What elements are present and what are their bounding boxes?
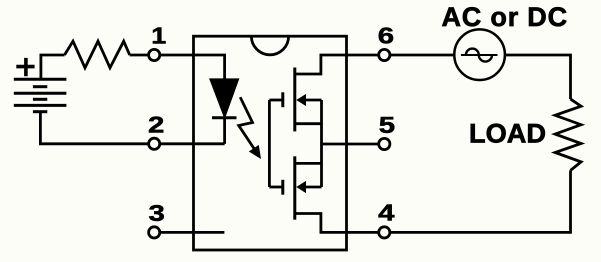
svg-text:2: 2 bbox=[148, 111, 164, 138]
wire LED cathode down bbox=[223, 118, 226, 144]
wire battery negative to pin 2 bbox=[40, 112, 148, 144]
wire load to pin 4 bbox=[390, 170, 571, 232]
terminal circle pin 2 bbox=[149, 138, 160, 149]
Q1 gate plate bbox=[281, 92, 284, 107]
wire battery positive to resistor bbox=[41, 55, 65, 79]
opto package U1 outline bbox=[194, 36, 347, 250]
LED D1 triangle bbox=[211, 79, 239, 116]
Q1 body lead wire bbox=[305, 99, 322, 102]
svg-text:AC or DC: AC or DC bbox=[442, 2, 568, 32]
Q2 gate plate bbox=[281, 180, 284, 195]
Q2 drain lead to pin 4 bbox=[295, 214, 379, 233]
Q1 body arrow bbox=[296, 94, 306, 106]
terminal circle pin 3 bbox=[149, 227, 160, 238]
wire resistor to pin 1 bbox=[130, 54, 149, 57]
wire pin 2 to LED cathode bbox=[160, 142, 225, 145]
Q2 source lead wire bbox=[295, 162, 322, 165]
terminal circle pin 5 bbox=[379, 138, 390, 149]
svg-text:LOAD: LOAD bbox=[469, 117, 546, 148]
LED D1 cathode bar bbox=[212, 116, 237, 119]
Q1 drain lead to pin 6 bbox=[295, 55, 379, 74]
load resistor RL bbox=[555, 99, 581, 170]
wire LED anode bbox=[194, 55, 225, 80]
Q2 body lead wire bbox=[305, 186, 322, 189]
battery B1 plates bbox=[14, 79, 67, 112]
gate bus wire bbox=[268, 100, 271, 187]
svg-text:6: 6 bbox=[378, 22, 394, 49]
wire common bus to pin 5 bbox=[322, 143, 379, 146]
terminal circle pin 1 bbox=[149, 49, 160, 60]
wire pin 6 to AC source bbox=[390, 54, 454, 57]
Q2 gate lead wire bbox=[269, 186, 282, 189]
Q1 channel bar bbox=[293, 68, 296, 132]
battery B1 plus sign bbox=[16, 58, 34, 76]
wire AC source to load bbox=[505, 55, 571, 99]
light emission arrow bbox=[239, 97, 261, 159]
AC source axis line bbox=[461, 54, 498, 56]
package notch bbox=[251, 36, 288, 55]
Q2 channel bar bbox=[293, 156, 296, 219]
AC source V1 circle bbox=[454, 29, 505, 80]
terminal circle pin 4 bbox=[379, 227, 390, 238]
svg-text:3: 3 bbox=[149, 200, 165, 227]
resistor R1 bbox=[65, 41, 130, 68]
svg-text:4: 4 bbox=[378, 199, 395, 226]
AC source sine wave bbox=[466, 49, 492, 62]
svg-text:5: 5 bbox=[379, 112, 396, 139]
Q2 body arrow bbox=[296, 181, 306, 193]
terminal circle pin 6 bbox=[379, 49, 390, 60]
svg-text:1: 1 bbox=[151, 23, 166, 49]
Q1 source lead wire bbox=[295, 122, 322, 125]
Q1 gate lead wire bbox=[269, 99, 282, 102]
output common bus wire bbox=[320, 100, 323, 187]
wire pin 1 to package bbox=[160, 54, 194, 57]
wire pin 3 stub bbox=[160, 231, 225, 234]
